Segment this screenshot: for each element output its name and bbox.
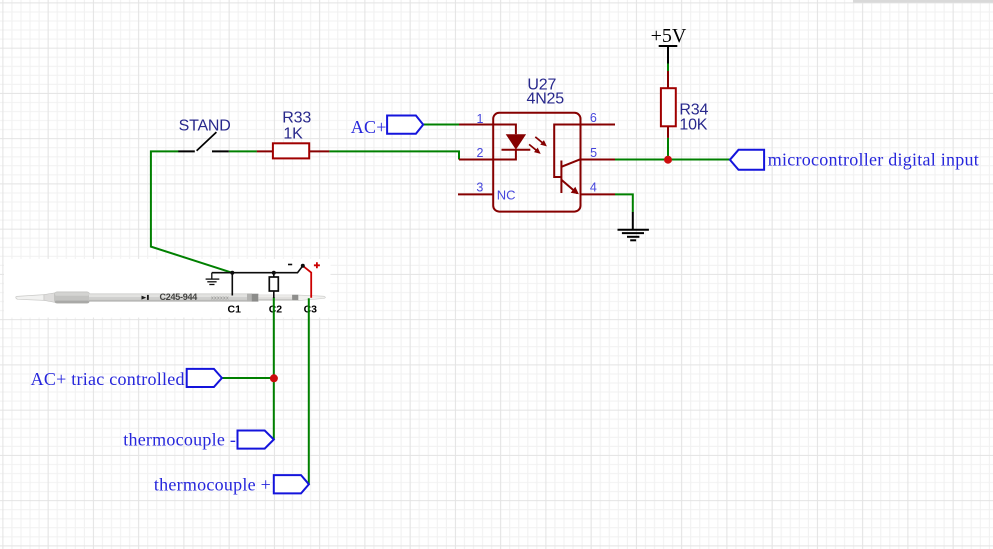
svg-text:1K: 1K	[283, 126, 303, 143]
svg-text:6: 6	[590, 111, 597, 125]
svg-text:4N25: 4N25	[527, 90, 565, 107]
svg-text:1: 1	[477, 112, 484, 126]
svg-text:AC+ triac controlled: AC+ triac controlled	[31, 369, 185, 389]
svg-text:microcontroller digital input: microcontroller digital input	[768, 150, 979, 170]
svg-text:C245-944: C245-944	[160, 292, 198, 302]
svg-text:C2: C2	[269, 304, 283, 316]
svg-text:thermocouple -: thermocouple -	[123, 430, 236, 450]
svg-text:10K: 10K	[679, 117, 707, 134]
svg-text:4: 4	[590, 181, 597, 195]
svg-text:thermocouple +: thermocouple +	[154, 475, 271, 495]
svg-text:C3: C3	[304, 304, 318, 316]
svg-text:xxxxxx: xxxxxx	[211, 295, 229, 301]
svg-text:3: 3	[476, 180, 483, 194]
svg-text:STAND: STAND	[179, 118, 231, 135]
svg-text:AC+: AC+	[351, 117, 387, 137]
svg-text:2: 2	[477, 146, 484, 160]
svg-text:NC: NC	[497, 187, 516, 202]
svg-text:R33: R33	[282, 109, 311, 126]
svg-text:C1: C1	[228, 304, 242, 316]
svg-text:5: 5	[590, 146, 597, 160]
svg-text:+5V: +5V	[651, 25, 687, 47]
